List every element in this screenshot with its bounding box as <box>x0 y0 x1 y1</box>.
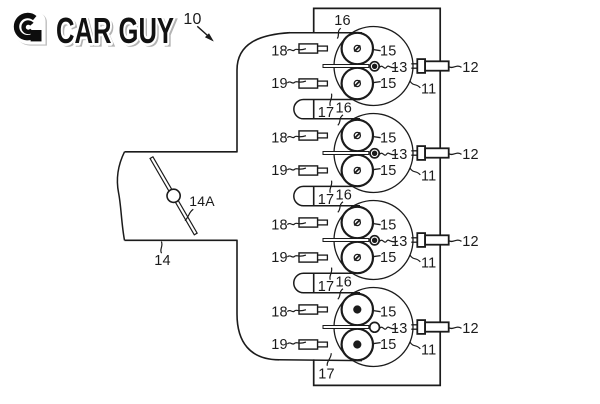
injector 19 body (cyl 2) <box>299 166 318 175</box>
svg-text:17: 17 <box>318 279 335 295</box>
label 11 (cyl 1) <box>421 81 436 97</box>
leader 16 (top) <box>337 28 340 38</box>
injector 19 body (cyl 4) <box>299 340 318 349</box>
injection bar (cyl 2) <box>323 152 369 155</box>
cylinder bore circle 11 (cyl 2) <box>334 114 413 193</box>
leader 12 (cyl 1) <box>449 66 462 67</box>
svg-text:17: 17 <box>318 192 335 208</box>
label 17 (bottom runner) <box>318 367 335 383</box>
leader 13 (cyl 3) <box>380 240 398 242</box>
valve stem mark (cyl 1 upper) <box>354 45 360 51</box>
svg-text:15: 15 <box>380 43 397 59</box>
svg-text:15: 15 <box>380 163 397 179</box>
svg-text:19: 19 <box>271 337 288 353</box>
injector 19 body (cyl 3) <box>299 253 318 262</box>
label 17 (row 2) <box>318 192 335 208</box>
svg-text:19: 19 <box>271 250 288 266</box>
valve stem mark (cyl 2 lower) <box>354 167 360 173</box>
label 12 (cyl 4) <box>462 321 479 337</box>
svg-text:15: 15 <box>380 337 397 353</box>
intake valve 15 (cyl 4 lower) <box>342 329 373 360</box>
leader 18 (cyl 1) <box>287 49 306 51</box>
svg-text:18: 18 <box>271 304 288 320</box>
label 13 (cyl 2) <box>391 147 408 163</box>
injector 19 nozzle (cyl 3) <box>318 255 328 260</box>
injector 19 nozzle (cyl 1) <box>318 81 328 86</box>
leader 19 (cyl 2) <box>287 168 306 170</box>
tangent line bottom (intake port floor, cyl 4) <box>278 359 362 362</box>
leader 17 (row 3) <box>330 268 332 280</box>
svg-text:11: 11 <box>421 342 436 358</box>
valve stem mark (cyl 3 lower) <box>354 254 360 260</box>
injector 18 body (cyl 1) <box>299 44 318 53</box>
intake valve 15 (cyl 2 lower) <box>342 155 373 186</box>
leader 13 (cyl 1) <box>380 66 398 68</box>
leader 11 (cyl 4) <box>410 342 420 349</box>
logo icon (CAR GUY pin mark) <box>13 12 47 46</box>
injector 19 nozzle (cyl 2) <box>318 168 328 173</box>
label 19 (cyl 3) <box>271 250 288 266</box>
svg-text:12: 12 <box>462 60 479 76</box>
svg-text:19: 19 <box>271 76 288 92</box>
label 12 (cyl 3) <box>462 234 479 250</box>
valve stem dot (cyl 4 upper) <box>354 306 361 313</box>
svg-text:18: 18 <box>271 217 288 233</box>
leader 14A <box>185 209 193 220</box>
surge tank lower outline <box>237 240 279 359</box>
svg-text:CAR GUY: CAR GUY <box>56 10 174 51</box>
leader 15 (cyl 1 upper) <box>373 50 381 51</box>
surge tank upper outline <box>237 33 290 152</box>
label 17 (row 3) <box>318 279 335 295</box>
leader 15 (cyl 3 lower) <box>373 256 381 257</box>
label 16 (row 3) <box>336 274 353 290</box>
cylinder bore circle 11 (cyl 1) <box>334 27 413 106</box>
intake valve 15 (cyl 4 upper) <box>342 294 373 325</box>
label 11 (cyl 3) <box>421 255 436 271</box>
valve stem mark (cyl 1 lower) <box>354 80 360 86</box>
leader 11 (cyl 1) <box>410 81 420 88</box>
svg-text:14: 14 <box>154 253 171 269</box>
throttle body lower wall <box>125 239 238 241</box>
label 18 (cyl 3) <box>271 217 288 233</box>
svg-text:10: 10 <box>183 11 201 28</box>
leader 13 (cyl 2) <box>380 153 398 155</box>
label 15 (cyl 3 lower) <box>380 250 397 266</box>
svg-text:11: 11 <box>421 81 436 97</box>
device 12 outer block (cyl 3) <box>425 235 449 244</box>
valve stem mark (cyl 3 upper) <box>354 219 360 225</box>
label 13 (cyl 3) <box>391 234 408 250</box>
spark plug circle 13 (cyl 4) <box>370 322 380 332</box>
svg-text:18: 18 <box>271 130 288 146</box>
svg-text:11: 11 <box>421 168 436 184</box>
spark plug circle 13 (cyl 3) <box>370 236 379 245</box>
svg-text:14A: 14A <box>189 193 215 209</box>
intake runner 17 (row 3) stadium <box>294 273 360 293</box>
injector 19 body (cyl 1) <box>299 79 318 88</box>
label 15 (cyl 2 lower) <box>380 163 397 179</box>
label 15 (cyl 1 upper) <box>380 43 397 59</box>
svg-text:12: 12 <box>462 321 479 337</box>
leader 15 (cyl 3 upper) <box>373 224 381 225</box>
injector 18 nozzle (cyl 1) <box>318 46 328 51</box>
injector 18 nozzle (cyl 3) <box>318 220 328 225</box>
device 12 stub lines (cyl 1) <box>411 64 417 68</box>
svg-text:15: 15 <box>380 130 397 146</box>
engine wall segment across runner 3 <box>313 273 315 293</box>
logo text CAR GUY <box>56 10 176 53</box>
intake valve 15 (cyl 3 lower) <box>342 242 373 273</box>
leader 18 (cyl 3) <box>287 223 306 225</box>
device 12 outer block (cyl 4) <box>425 322 449 331</box>
label 12 (cyl 1) <box>462 60 479 76</box>
intake valve 15 (cyl 2 upper) <box>342 120 373 151</box>
spark plug electrode dot (cyl 3) <box>372 238 376 242</box>
injector 18 body (cyl 4) <box>299 305 318 314</box>
cylinder bore circle 11 (cyl 3) <box>334 201 413 280</box>
leader 19 (cyl 1) <box>287 81 306 83</box>
label 17 (row 1) <box>318 105 335 121</box>
device 12 inner block (cyl 3) <box>417 233 425 247</box>
label 11 (cyl 2) <box>421 168 436 184</box>
spark plug electrode dot (cyl 2) <box>372 151 376 155</box>
device 12 outer block (cyl 2) <box>425 148 449 157</box>
leader 15 (cyl 2 upper) <box>373 137 381 138</box>
spark plug circle 13 (cyl 2) <box>370 149 379 158</box>
engine block outline (right rectangle) <box>314 8 441 385</box>
leader 15 (cyl 4 upper) <box>373 311 381 312</box>
injector 18 nozzle (cyl 4) <box>318 307 328 312</box>
leader 12 (cyl 3) <box>449 240 462 241</box>
svg-text:15: 15 <box>380 217 397 233</box>
device 12 inner block (cyl 4) <box>417 320 425 334</box>
leader 15 (cyl 2 lower) <box>373 169 381 170</box>
spark plug electrode dot (cyl 1) <box>372 64 376 68</box>
throttle body upper wall <box>125 151 238 153</box>
label 15 (cyl 2 upper) <box>380 130 397 146</box>
tangent line top (intake port roof, cyl 1) <box>287 32 362 34</box>
butterfly valve shaft 14A <box>150 157 197 235</box>
svg-text:16: 16 <box>336 100 353 116</box>
intake runner 17 (row 1) stadium <box>294 100 360 119</box>
butterfly valve pivot circle <box>167 189 180 202</box>
arrow for label 10 <box>197 26 213 40</box>
leader 17 (row 2) <box>330 181 332 193</box>
svg-text:12: 12 <box>462 147 479 163</box>
svg-text:16: 16 <box>336 274 353 290</box>
leader 16 (row 3) <box>338 289 343 300</box>
leader 18 (cyl 2) <box>287 136 306 138</box>
cylinder bore circle 11 (cyl 4) <box>334 288 413 367</box>
label 19 (cyl 1) <box>271 76 288 92</box>
leader 19 (cyl 3) <box>287 255 306 257</box>
label 14A <box>189 193 215 209</box>
leader 17 (bottom) <box>327 353 331 366</box>
svg-text:16: 16 <box>336 187 353 203</box>
svg-text:15: 15 <box>380 304 397 320</box>
leader 11 (cyl 3) <box>410 255 420 262</box>
svg-text:17: 17 <box>318 367 335 383</box>
leader 16 (row 1) <box>338 115 343 126</box>
device 12 stub lines (cyl 3) <box>411 238 417 242</box>
leader 14 <box>161 242 162 254</box>
label 16 (row 2) <box>336 187 353 203</box>
label 16 (cyl 1 intake port) <box>334 13 351 29</box>
svg-text:17: 17 <box>318 105 335 121</box>
label 12 (cyl 2) <box>462 147 479 163</box>
label 16 (row 1) <box>336 100 353 116</box>
device 12 inner block (cyl 1) <box>417 59 425 73</box>
device 12 stub lines (cyl 2) <box>411 151 417 155</box>
throttle body break line (left edge) <box>117 152 124 241</box>
intake valve 15 (cyl 1 lower) <box>342 68 373 99</box>
injector 19 nozzle (cyl 4) <box>318 342 328 347</box>
label 14 <box>154 253 171 269</box>
label 19 (cyl 2) <box>271 163 288 179</box>
label 15 (cyl 3 upper) <box>380 217 397 233</box>
valve stem dot (cyl 4 lower) <box>354 341 361 348</box>
injection bar (cyl 3) <box>323 239 369 242</box>
label 18 (cyl 4) <box>271 304 288 320</box>
device 12 inner block (cyl 2) <box>417 146 425 160</box>
svg-text:15: 15 <box>380 250 397 266</box>
device 12 stub lines (cyl 4) <box>411 325 417 329</box>
label 11 (cyl 4) <box>421 342 436 358</box>
injection bar (cyl 4) <box>323 326 369 329</box>
intake valve 15 (cyl 1 upper) <box>342 33 373 64</box>
svg-text:11: 11 <box>421 255 436 271</box>
leader 13 (cyl 4) <box>380 327 398 329</box>
leader 15 (cyl 4 lower) <box>373 343 381 344</box>
spark plug circle 13 (cyl 1) <box>370 62 379 71</box>
intake valve 15 (cyl 3 upper) <box>342 207 373 238</box>
injector 18 nozzle (cyl 2) <box>318 133 328 138</box>
intake runner 17 (row 2) stadium <box>294 186 360 205</box>
engine wall segment across runner 1 <box>313 100 315 119</box>
injector 18 body (cyl 3) <box>299 218 318 227</box>
label 19 (cyl 4) <box>271 337 288 353</box>
valve stem mark (cyl 2 upper) <box>354 132 360 138</box>
leader 17 (row 1) <box>330 94 332 106</box>
engine wall segment across runner 2 <box>313 186 315 205</box>
label 13 (cyl 4) <box>391 321 408 337</box>
leader 11 (cyl 2) <box>410 168 420 175</box>
leader 16 (row 2) <box>338 202 343 213</box>
svg-text:16: 16 <box>334 13 351 29</box>
leader 15 (cyl 1 lower) <box>373 82 381 83</box>
leader 12 (cyl 4) <box>449 327 462 328</box>
svg-text:15: 15 <box>380 76 397 92</box>
leader 12 (cyl 2) <box>449 153 462 154</box>
label 18 (cyl 2) <box>271 130 288 146</box>
injector 18 body (cyl 2) <box>299 131 318 140</box>
svg-text:19: 19 <box>271 163 288 179</box>
label 15 (cyl 4 lower) <box>380 337 397 353</box>
leader 18 (cyl 4) <box>287 310 306 312</box>
label 13 (cyl 1) <box>391 60 408 76</box>
label 15 (cyl 1 lower) <box>380 76 397 92</box>
label 15 (cyl 4 upper) <box>380 304 397 320</box>
label 18 (cyl 1) <box>271 43 288 59</box>
device 12 outer block (cyl 1) <box>425 61 449 70</box>
leader 19 (cyl 4) <box>287 342 306 344</box>
svg-text:18: 18 <box>271 43 288 59</box>
svg-text:12: 12 <box>462 234 479 250</box>
injection bar (cyl 1) <box>323 65 369 68</box>
label 10 (figure number) <box>183 11 201 28</box>
